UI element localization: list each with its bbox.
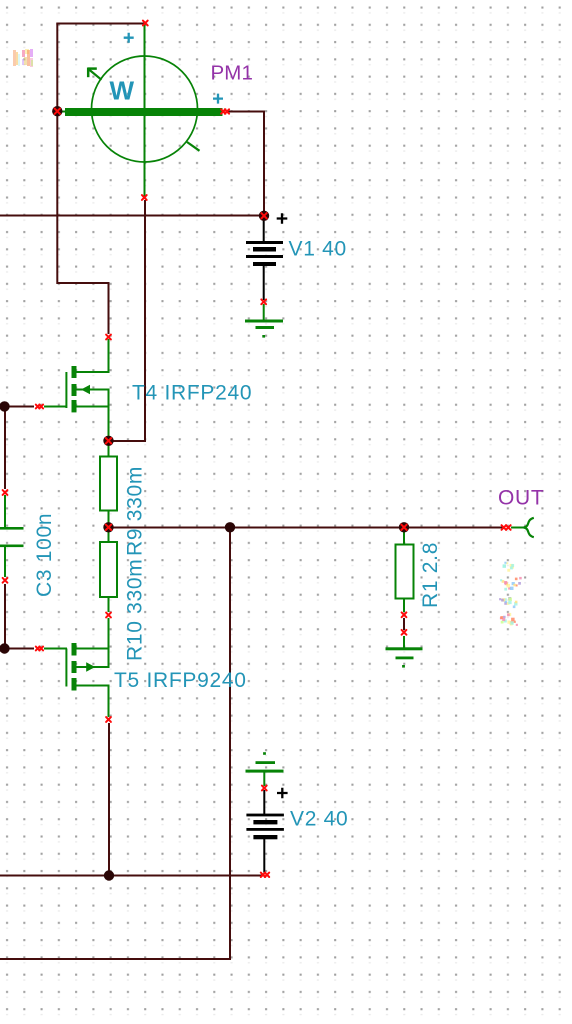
svg-text:V2 40: V2 40 [290, 807, 348, 830]
svg-text:PM1: PM1 [211, 62, 253, 85]
svg-text:V1 40: V1 40 [289, 237, 347, 260]
svg-text:T4 IRFP240: T4 IRFP240 [132, 381, 252, 404]
svg-text:OUT: OUT [498, 486, 544, 509]
svg-text:C3 100n: C3 100n [33, 513, 56, 597]
svg-text:W: W [110, 76, 135, 106]
svg-text:T5 IRFP9240: T5 IRFP9240 [114, 669, 247, 692]
svg-text:R1 2.8: R1 2.8 [419, 542, 442, 608]
svg-text:R10 330m: R10 330m [124, 559, 147, 662]
svg-text:R9 330m: R9 330m [124, 466, 147, 556]
